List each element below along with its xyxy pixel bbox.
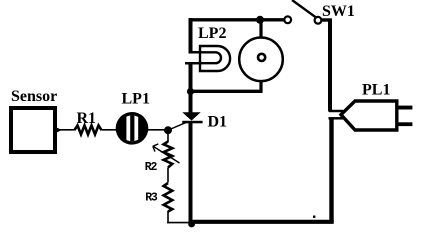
- svg-text:SW1: SW1: [322, 3, 355, 20]
- svg-text:LP2: LP2: [198, 25, 226, 42]
- svg-text:LP1: LP1: [122, 90, 150, 107]
- svg-text:R2: R2: [145, 161, 158, 174]
- svg-text:R3: R3: [145, 192, 158, 205]
- svg-text:R1: R1: [77, 110, 97, 127]
- svg-text:PL1: PL1: [362, 81, 390, 98]
- svg-text:Sensor: Sensor: [11, 88, 57, 105]
- svg-text:D1: D1: [208, 113, 228, 130]
